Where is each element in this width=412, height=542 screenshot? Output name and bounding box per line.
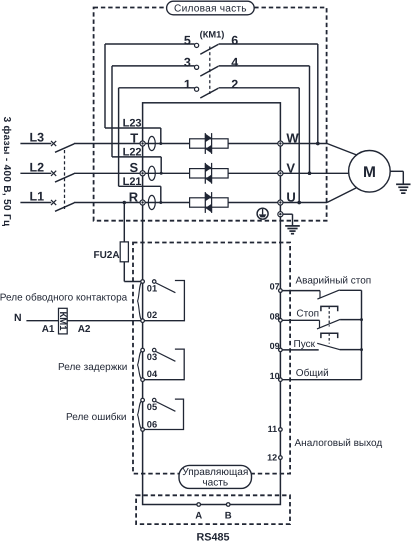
- svg-text:12: 12: [267, 452, 277, 462]
- svg-text:L2: L2: [30, 160, 45, 174]
- svg-text:N: N: [14, 312, 22, 324]
- svg-text:1: 1: [184, 77, 191, 91]
- svg-text:L3: L3: [30, 131, 45, 145]
- svg-text:КМ1: КМ1: [57, 312, 68, 332]
- svg-text:11: 11: [268, 424, 278, 434]
- svg-text:RS485: RS485: [196, 532, 229, 542]
- svg-text:3 фазы - 400 В, 50 Гц: 3 фазы - 400 В, 50 Гц: [1, 117, 12, 227]
- svg-text:А: А: [195, 510, 202, 521]
- svg-text:Общий: Общий: [296, 368, 329, 379]
- svg-text:Реле задержки: Реле задержки: [58, 362, 127, 373]
- svg-text:A1: A1: [42, 324, 55, 335]
- svg-text:A2: A2: [78, 324, 91, 335]
- svg-text:W: W: [286, 131, 299, 146]
- svg-text:09: 09: [270, 341, 280, 351]
- svg-text:6: 6: [231, 34, 238, 48]
- svg-text:Реле обводного контактора: Реле обводного контактора: [0, 293, 128, 304]
- svg-text:Аварийный стоп: Аварийный стоп: [296, 275, 372, 286]
- svg-text:В: В: [225, 510, 232, 521]
- svg-text:FU2A: FU2A: [93, 250, 119, 261]
- svg-text:R: R: [129, 189, 139, 204]
- svg-text:10: 10: [270, 371, 280, 381]
- svg-text:L1: L1: [30, 190, 45, 204]
- svg-text:Стоп: Стоп: [296, 308, 319, 319]
- svg-text:U: U: [286, 190, 295, 205]
- svg-text:L22: L22: [123, 147, 142, 159]
- svg-text:04: 04: [147, 369, 158, 379]
- svg-text:3: 3: [184, 56, 191, 70]
- svg-text:M: M: [363, 164, 376, 181]
- svg-text:01: 01: [147, 284, 157, 294]
- svg-text:Пуск: Пуск: [294, 339, 316, 350]
- svg-text:2: 2: [231, 77, 238, 91]
- svg-text:Управляющая: Управляющая: [182, 467, 248, 478]
- svg-text:Реле ошибки: Реле ошибки: [66, 412, 127, 423]
- svg-text:08: 08: [270, 311, 280, 321]
- svg-text:03: 03: [147, 352, 157, 362]
- svg-text:06: 06: [147, 419, 157, 429]
- svg-text:4: 4: [231, 56, 238, 70]
- svg-text:Силовая часть: Силовая часть: [174, 3, 247, 14]
- svg-text:07: 07: [270, 282, 280, 292]
- svg-text:часть: часть: [202, 477, 228, 488]
- svg-text:Аналоговый выход: Аналоговый выход: [295, 438, 383, 449]
- svg-text:5: 5: [184, 34, 191, 48]
- svg-text:(КМ1): (КМ1): [200, 29, 225, 39]
- svg-text:T: T: [130, 130, 138, 145]
- svg-text:02: 02: [147, 310, 157, 320]
- svg-text:L23: L23: [123, 118, 142, 130]
- svg-text:05: 05: [147, 402, 157, 412]
- svg-text:S: S: [130, 160, 139, 175]
- svg-text:V: V: [286, 160, 295, 175]
- svg-text:L21: L21: [123, 176, 142, 188]
